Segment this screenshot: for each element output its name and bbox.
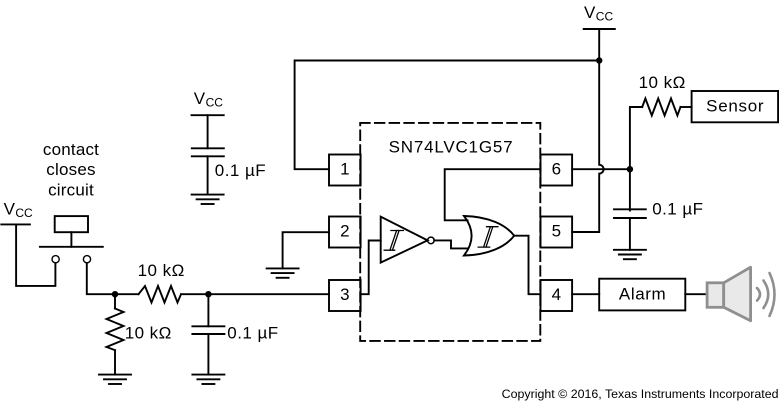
power VCC bar (far left) xyxy=(1,223,30,225)
wire pin 6 to OR gate top input xyxy=(445,169,541,220)
svg-text:closes: closes xyxy=(46,160,95,179)
wire pin 4 to Alarm xyxy=(572,293,599,295)
wire node A down to R2 xyxy=(114,294,116,308)
wire R3 to Sensor box xyxy=(681,106,692,108)
svg-text:V: V xyxy=(194,89,206,108)
power VCC label (left, top of C1) xyxy=(194,89,223,110)
wire VCC down to pin 5 with hop over pin-6 wire xyxy=(572,61,604,233)
svg-text:CC: CC xyxy=(596,10,614,24)
wire node A to pin 3 xyxy=(181,293,329,295)
wire node B down to C2 xyxy=(207,294,209,326)
wire pin 3 to inverter input xyxy=(361,241,381,295)
svg-text:0.1 µF: 0.1 µF xyxy=(215,161,266,180)
svg-text:0.1 µF: 0.1 µF xyxy=(227,324,278,343)
svg-text:2: 2 xyxy=(340,222,349,241)
svg-text:10 kΩ: 10 kΩ xyxy=(639,73,686,92)
svg-text:1: 1 xyxy=(340,160,349,179)
wire inverter output to OR gate input xyxy=(434,240,467,248)
OR gate U1 Schmitt xyxy=(464,216,514,256)
wire R2 to ground xyxy=(114,350,116,374)
resistor R3 10k (sensor pullup) xyxy=(642,99,680,116)
svg-text:5: 5 xyxy=(552,222,561,241)
wire Alarm to speaker xyxy=(685,293,707,295)
ground under C2 xyxy=(192,375,224,384)
capacitor C3 0.1uF xyxy=(614,209,646,218)
power VCC bar (C1) xyxy=(192,114,224,116)
speaker icon xyxy=(707,267,751,321)
svg-text:Sensor: Sensor xyxy=(706,96,764,115)
wire C1 to ground xyxy=(207,156,209,194)
ground at pin 2 xyxy=(267,268,299,277)
wire VCC to switch left contact xyxy=(16,224,55,286)
ground under R2 xyxy=(99,375,131,384)
wire OR gate output to pin 4 xyxy=(514,236,540,295)
svg-text:Alarm: Alarm xyxy=(619,285,666,304)
label contact closes circuit xyxy=(43,140,99,200)
Sensor block xyxy=(692,91,779,122)
svg-text:circuit: circuit xyxy=(48,180,94,199)
svg-text:3: 3 xyxy=(340,285,349,304)
capacitor C1 0.1uF xyxy=(192,148,224,156)
wire pin 2 to ground xyxy=(283,232,329,268)
pin 3 box xyxy=(329,280,361,311)
node VCC junction xyxy=(596,57,602,63)
switch S1 pushbutton xyxy=(40,216,103,263)
svg-text:10 kΩ: 10 kΩ xyxy=(125,324,172,343)
svg-text:Copyright © 2016, Texas Instru: Copyright © 2016, Texas Instruments Inco… xyxy=(502,387,779,401)
svg-text:SN74LVC1G57: SN74LVC1G57 xyxy=(389,137,514,156)
wire C3 to ground xyxy=(629,218,631,250)
wire pin 6 to node C xyxy=(572,168,630,170)
wire node C down to C3 xyxy=(629,169,631,210)
ground under C1 xyxy=(192,195,224,204)
wire switch right contact to node A xyxy=(87,263,139,294)
speaker sound waves xyxy=(757,273,775,316)
wire VCC bar to C1 xyxy=(207,115,209,148)
svg-text:10 kΩ: 10 kΩ xyxy=(138,261,185,280)
ground under C3 xyxy=(614,250,646,259)
pin 4 box xyxy=(541,280,573,311)
svg-text:6: 6 xyxy=(552,160,561,179)
power VCC bar (top right) xyxy=(584,28,615,30)
wire C2 to ground xyxy=(207,334,209,375)
pin 6 box xyxy=(541,155,573,186)
wire node C up to R3 xyxy=(630,107,642,169)
svg-text:CC: CC xyxy=(15,206,33,220)
svg-text:contact: contact xyxy=(43,140,99,159)
inverter U1 Schmitt trigger xyxy=(381,217,435,263)
power VCC label (far left) xyxy=(4,200,33,221)
wire VCC bar to junction xyxy=(598,29,600,61)
svg-text:V: V xyxy=(4,200,16,219)
Alarm block xyxy=(599,279,685,311)
resistor R1 10k (horizontal) xyxy=(139,286,182,303)
node A junction xyxy=(112,291,118,297)
IC U1 SN74LVC1G57 dashed outline xyxy=(360,123,540,341)
power VCC label (top right) xyxy=(584,3,613,24)
node B junction xyxy=(205,291,211,297)
capacitor C2 0.1uF xyxy=(192,326,224,334)
pin 1 box xyxy=(329,155,361,186)
svg-text:0.1 µF: 0.1 µF xyxy=(652,200,703,219)
pin 5 box xyxy=(541,217,573,248)
svg-text:4: 4 xyxy=(552,285,561,304)
node C junction xyxy=(627,166,633,172)
pin 2 box xyxy=(329,217,361,248)
wire top loop from VCC junction to pin 1 xyxy=(295,61,600,170)
svg-text:CC: CC xyxy=(206,96,224,110)
svg-text:V: V xyxy=(584,3,596,22)
resistor R2 10k (vertical) xyxy=(107,309,124,351)
